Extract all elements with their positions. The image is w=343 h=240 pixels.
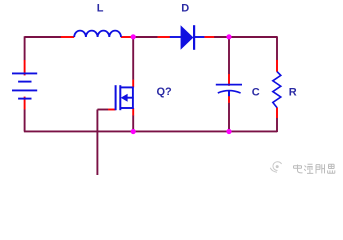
node junction dot (diode/capacitor top) bbox=[226, 34, 231, 39]
watermark text 电源联盟 bbox=[294, 164, 335, 173]
svg-text:D: D bbox=[181, 3, 189, 15]
wire top-left horizontal bbox=[25, 36, 62, 38]
wire top right (diode to corner) bbox=[214, 36, 277, 38]
wire gate horizontal bbox=[97, 109, 108, 111]
wire drain vertical bbox=[132, 37, 134, 80]
wire right vertical bottom (resistor to rail) bbox=[276, 118, 278, 132]
svg-text:C: C bbox=[252, 87, 260, 99]
resistor R bbox=[273, 60, 281, 118]
wire left vertical (battery bottom) bbox=[24, 109, 26, 131]
wire source vertical bbox=[132, 115, 134, 131]
transistor Q? (NMOS) bbox=[108, 80, 133, 116]
svg-text:L: L bbox=[97, 3, 104, 15]
watermark logo swirl bbox=[270, 162, 281, 172]
wire left vertical (battery top) bbox=[24, 36, 26, 60]
node junction dot (inductor/diode/drain) bbox=[131, 34, 136, 39]
node junction dot (source/bottom rail) bbox=[131, 129, 136, 134]
inductor L bbox=[61, 31, 133, 37]
wire bottom rail bbox=[24, 130, 277, 132]
wire capacitor bottom bbox=[228, 103, 230, 132]
capacitor C (polarized) bbox=[216, 74, 242, 103]
wire right vertical top (to resistor) bbox=[276, 36, 278, 60]
wire capacitor top bbox=[228, 37, 230, 74]
battery V (DC source) bbox=[12, 60, 37, 109]
diode D bbox=[158, 25, 215, 50]
svg-text:R: R bbox=[289, 87, 297, 99]
node junction dot (capacitor bottom rail) bbox=[226, 129, 231, 134]
wire gate vertical (drive signal, hanging) bbox=[96, 110, 98, 176]
svg-text:Q?: Q? bbox=[157, 86, 173, 98]
wire top mid (node to diode) bbox=[133, 36, 158, 38]
